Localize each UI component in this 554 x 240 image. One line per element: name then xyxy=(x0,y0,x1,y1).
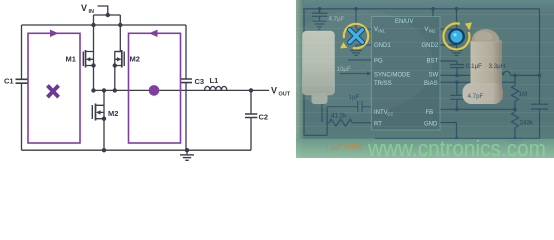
svg-text:243k: 243k xyxy=(520,120,534,127)
svg-text:C1: C1 xyxy=(4,77,14,86)
svg-text:OUT: OUT xyxy=(279,92,291,98)
svg-text:C3: C3 xyxy=(195,77,205,86)
svg-text:V: V xyxy=(271,86,277,96)
svg-text:f: f xyxy=(327,144,329,151)
svg-text:0.1µF: 0.1µF xyxy=(466,63,482,70)
svg-text:www.cntronics.com: www.cntronics.com xyxy=(367,136,546,158)
svg-text:M2: M2 xyxy=(130,55,140,64)
svg-text:C2: C2 xyxy=(259,113,269,122)
svg-text:41.2k: 41.2k xyxy=(331,113,347,120)
svg-text:3.3µH: 3.3µH xyxy=(489,63,506,70)
svg-text:M1: M1 xyxy=(66,55,76,64)
svg-text:IN2: IN2 xyxy=(429,29,436,34)
svg-text:SW: SW xyxy=(330,146,338,152)
svg-text:= 1MHz: = 1MHz xyxy=(338,144,363,151)
svg-text:M2: M2 xyxy=(108,109,118,118)
svg-text:1M: 1M xyxy=(519,91,528,98)
svg-text:IN: IN xyxy=(89,9,95,15)
svg-text:V: V xyxy=(81,3,87,13)
svg-text:L1: L1 xyxy=(210,76,219,85)
